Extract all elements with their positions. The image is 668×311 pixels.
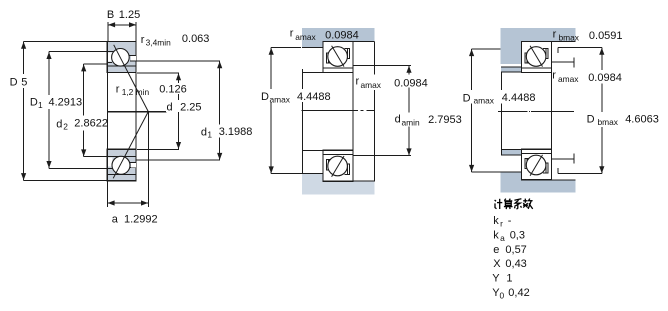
char 计 — [495, 200, 496, 201]
svg-text:0,57: 0,57 — [505, 244, 526, 256]
svg-text:1: 1 — [506, 273, 512, 285]
wire contact line lower — [113, 112, 148, 179]
housing wall lower — [500, 172, 521, 192]
svg-text:d: d — [201, 126, 207, 138]
wire Damax extension top — [472, 48, 501, 50]
svg-text:amax: amax — [270, 94, 291, 104]
node damin arrows — [406, 66, 411, 73]
svg-text:0,42: 0,42 — [508, 287, 529, 299]
wire Damax dimension line — [471, 49, 473, 172]
svg-text:3.1988: 3.1988 — [219, 126, 253, 138]
wire d2 dimension line — [83, 64, 85, 157]
svg-text:a: a — [112, 214, 119, 226]
shaft shoulder band top — [302, 28, 375, 42]
node d arrows — [176, 73, 181, 80]
outer ring lines — [107, 51, 115, 53]
svg-text:5: 5 — [21, 77, 27, 89]
svg-text:0,43: 0,43 — [505, 258, 526, 270]
wire right face line between sections — [135, 73, 137, 150]
svg-text:d: d — [167, 101, 173, 113]
label D1 4.2913 — [28, 95, 82, 109]
char 算 — [504, 199, 505, 201]
svg-text:0,3: 0,3 — [510, 229, 525, 241]
wire d2 extension top — [84, 63, 108, 65]
svg-text:d: d — [56, 118, 62, 130]
label r amax 0.0984 (mid) — [354, 75, 427, 88]
node B arrows — [108, 22, 115, 27]
svg-text:Y: Y — [492, 273, 500, 285]
wire d dimension line — [178, 73, 180, 149]
label damin 2.7953 — [393, 113, 463, 127]
wire bore line bottom — [303, 150, 324, 152]
svg-text:r: r — [141, 34, 145, 46]
svg-text:1: 1 — [207, 129, 212, 139]
node D arrows — [21, 42, 26, 49]
svg-text:D: D — [463, 92, 471, 104]
white grooves — [108, 52, 112, 61]
wire flange bottom edge — [522, 41, 576, 43]
wire B-dim extension lines — [107, 22, 109, 42]
svg-text:r: r — [553, 29, 557, 41]
wire damin dimension line — [408, 65, 410, 155]
wire Dbmax extension top with tick — [558, 47, 602, 49]
char 数 — [524, 199, 526, 203]
svg-text:0.0984: 0.0984 — [394, 77, 428, 89]
wire Dbmax extension bottom with tick — [558, 173, 602, 175]
label d1 3.1988 — [198, 125, 252, 138]
svg-text:k: k — [493, 215, 499, 227]
wire B dimension line — [108, 24, 136, 26]
node Damax arrows — [269, 48, 274, 55]
inner ring top line — [107, 65, 136, 67]
housing flange top — [522, 28, 576, 42]
shaft shoulder band bottom — [302, 181, 375, 194]
wire Damax dimension line — [270, 47, 272, 173]
wire left face line between sections — [107, 73, 109, 150]
wire d1 dimension line — [219, 61, 221, 160]
svg-text:amax: amax — [295, 32, 316, 42]
svg-text:D: D — [587, 114, 595, 126]
svg-text:r: r — [356, 76, 360, 88]
bearing lower section (blue) — [107, 149, 136, 180]
wire ramax extension bottom with tick — [552, 158, 574, 160]
label table header 计算系数 drawn as vector strokes — [495, 199, 533, 210]
svg-text:4.6063: 4.6063 — [625, 114, 659, 126]
wire contact line upper — [113, 45, 148, 179]
wire right vertical line — [374, 42, 376, 76]
housing wall upper — [500, 28, 521, 64]
svg-text:r: r — [290, 27, 294, 39]
svg-text:4.4488: 4.4488 — [297, 91, 331, 103]
bearing upper section (white) — [522, 42, 552, 73]
svg-text:amax: amax — [474, 96, 495, 106]
node Damax arrows — [469, 49, 474, 56]
wire damin extension bottom — [353, 155, 411, 157]
svg-text:2.8622: 2.8622 — [74, 118, 108, 130]
svg-text:bmax: bmax — [559, 33, 580, 43]
wire D extension top — [24, 41, 108, 43]
bearing lower section (white) — [522, 149, 552, 179]
svg-text:1,2 min: 1,2 min — [122, 87, 150, 97]
svg-text:3,4min: 3,4min — [146, 38, 171, 48]
wire d extension bottom — [137, 148, 179, 150]
label r amax 0.0984 — [586, 70, 625, 84]
wire axis line — [498, 110, 528, 112]
svg-text:amax: amax — [558, 74, 579, 84]
wire a extension right (from apex) — [147, 112, 149, 208]
label D 5 — [7, 74, 29, 88]
wire D extension bottom — [24, 179, 108, 181]
bearing lower section (white) — [323, 150, 353, 181]
wire band bottom edge line — [323, 41, 375, 43]
wire shaft step vertical — [302, 69, 304, 174]
housing flange bottom — [522, 180, 576, 193]
shaft band upper — [501, 67, 522, 72]
bearing upper section (white) — [323, 42, 353, 73]
char 系 — [514, 199, 521, 201]
ball — [112, 49, 130, 67]
svg-text:0.0984: 0.0984 — [325, 30, 359, 42]
wire d2 extension bottom — [84, 156, 108, 158]
svg-text:X: X — [493, 258, 501, 270]
svg-text:D: D — [10, 77, 18, 89]
wire Dbmax dimension line — [601, 48, 603, 174]
svg-text:bmax: bmax — [598, 117, 619, 127]
wire ramax extension top with tick — [552, 61, 574, 63]
svg-text:2: 2 — [63, 122, 68, 132]
bearing upper section (blue) — [107, 42, 136, 73]
svg-text:amax: amax — [361, 80, 382, 90]
svg-text:1.25: 1.25 — [119, 9, 140, 21]
svg-text:1: 1 — [38, 100, 43, 110]
wire d1 extension bottom — [135, 159, 220, 161]
wire bearing face lines between sections — [551, 42, 553, 181]
svg-text:0.0984: 0.0984 — [588, 72, 622, 84]
svg-text:1.2992: 1.2992 — [124, 214, 158, 226]
svg-text:d: d — [395, 114, 401, 126]
svg-text:e: e — [493, 244, 499, 256]
wire d1 extension top — [135, 60, 220, 62]
label Damax 4.4488 — [259, 89, 332, 102]
wire a dimension line — [107, 202, 148, 204]
svg-text:-: - — [508, 215, 512, 227]
svg-text:2.7953: 2.7953 — [428, 114, 462, 126]
svg-text:4.2913: 4.2913 — [49, 97, 83, 109]
wire D1 dimension line — [48, 52, 50, 169]
wire d extension top — [137, 72, 179, 74]
label Damax 4.4488 — [461, 90, 535, 104]
wire axis line — [302, 110, 358, 112]
svg-text:k: k — [493, 229, 499, 241]
wire axis line — [108, 111, 167, 113]
svg-text:0.126: 0.126 — [159, 84, 187, 96]
node D1 arrows — [46, 52, 51, 59]
wire D1 extension bottom — [49, 167, 107, 169]
node Dbmax arrows — [599, 48, 604, 55]
svg-text:0.0591: 0.0591 — [589, 30, 623, 42]
svg-text:B: B — [107, 9, 114, 21]
svg-text:amin: amin — [402, 118, 420, 128]
label d2 2.8622 — [54, 116, 107, 131]
wire shaft face vertical line — [500, 72, 502, 155]
wire Damax extension bottom — [271, 173, 302, 175]
shaft band lower — [501, 150, 522, 155]
node d1 arrows — [217, 61, 222, 68]
node d2 arrows — [81, 64, 86, 71]
node a arrows — [108, 200, 115, 205]
svg-text:4.4488: 4.4488 — [502, 92, 536, 104]
svg-text:D: D — [261, 91, 269, 103]
svg-text:a: a — [500, 233, 505, 243]
wire Damax extension top — [271, 46, 301, 48]
svg-text:0.063: 0.063 — [182, 33, 210, 45]
svg-text:0: 0 — [500, 291, 505, 301]
svg-text:2.25: 2.25 — [180, 101, 201, 113]
wire a extension left — [106, 181, 108, 207]
wire Damax extension bottom — [472, 171, 522, 173]
wire D dimension line — [23, 42, 25, 181]
label d 2.25 — [166, 100, 203, 112]
svg-text:r: r — [552, 70, 556, 82]
label Dbmax 4.6063 — [585, 112, 659, 127]
wire bearing right face line between sections — [352, 73, 354, 151]
wire bore line top — [303, 72, 324, 74]
svg-text:r: r — [116, 84, 120, 96]
wire D1 extension top — [49, 51, 107, 53]
wire damin extension top — [353, 64, 411, 66]
svg-text:r: r — [500, 219, 503, 229]
svg-text:D: D — [30, 97, 38, 109]
